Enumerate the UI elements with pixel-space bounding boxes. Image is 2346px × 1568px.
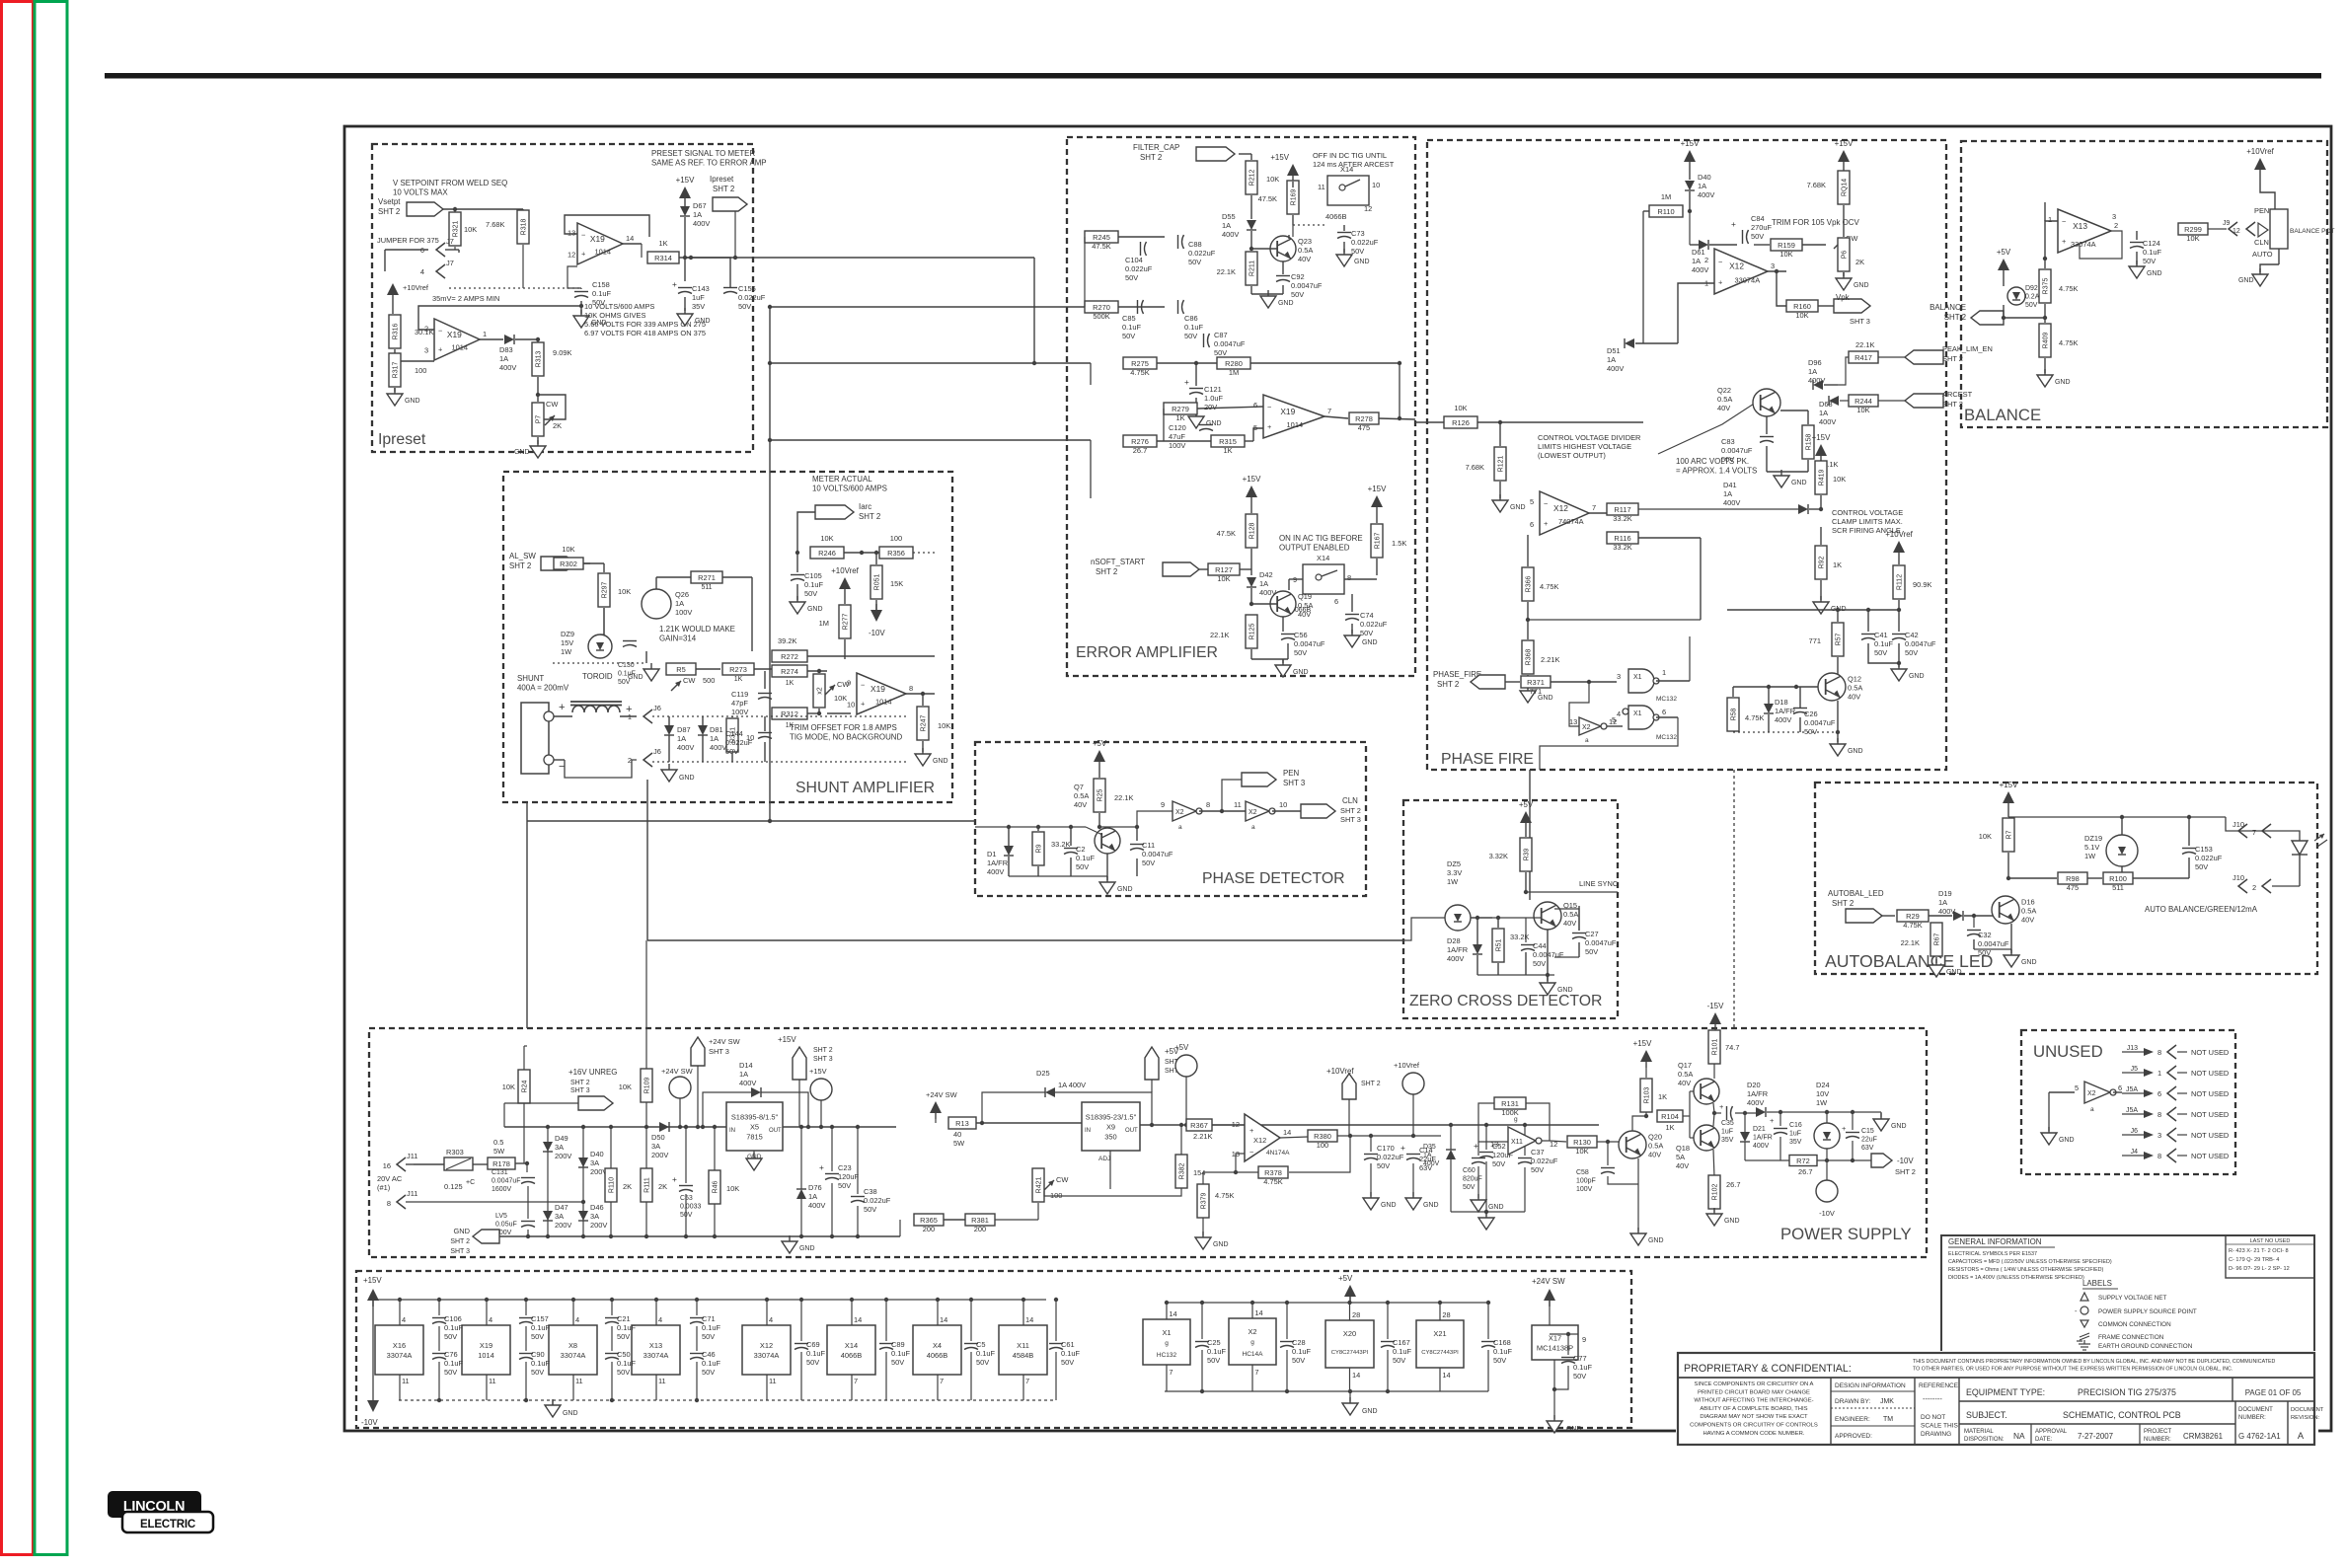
svg-text:400V: 400V [1753, 1143, 1770, 1150]
svg-text:R116: R116 [1614, 534, 1630, 543]
svg-text:+: + [1770, 1116, 1774, 1125]
svg-text:C27: C27 [1585, 930, 1599, 938]
svg-text:SHT 3: SHT 3 [1283, 779, 1306, 787]
svg-text:15K: 15K [890, 579, 903, 588]
svg-text:7: 7 [2252, 828, 2256, 837]
svg-text:C74: C74 [1360, 611, 1374, 620]
svg-text:OFF IN DC TIG UNTIL: OFF IN DC TIG UNTIL [1313, 151, 1387, 160]
svg-text:D1: D1 [987, 850, 997, 859]
svg-text:1A: 1A [1819, 409, 1828, 417]
svg-text:50V: 50V [1188, 258, 1201, 266]
svg-text:1uF: 1uF [1789, 1131, 1801, 1138]
svg-text:a: a [2090, 1106, 2094, 1113]
svg-text:J10: J10 [2232, 873, 2244, 882]
svg-text:X19: X19 [447, 330, 462, 339]
svg-text:500: 500 [703, 676, 715, 685]
svg-text:10: 10 [1279, 800, 1287, 809]
svg-text:14: 14 [1352, 1371, 1360, 1380]
svg-text:771: 771 [1809, 636, 1821, 645]
svg-text:R302: R302 [560, 560, 577, 568]
svg-text:C71: C71 [702, 1314, 716, 1323]
svg-text:X21: X21 [1433, 1329, 1446, 1338]
svg-text:GAIN=314: GAIN=314 [659, 635, 697, 643]
svg-text:1.0uF: 1.0uF [1204, 394, 1223, 403]
svg-text:NOT USED: NOT USED [2191, 1152, 2230, 1160]
svg-text:10 VOLTS/600 AMPS: 10 VOLTS/600 AMPS [812, 485, 887, 493]
svg-text:2.21K: 2.21K [1193, 1132, 1212, 1141]
svg-text:R245: R245 [1093, 233, 1110, 242]
svg-text:C84: C84 [1751, 214, 1765, 223]
svg-text:3: 3 [2112, 212, 2116, 221]
svg-text:40V: 40V [1074, 800, 1087, 809]
svg-text:ON IN AC TIG BEFORE: ON IN AC TIG BEFORE [1279, 534, 1363, 543]
svg-text:1uF: 1uF [1721, 1129, 1733, 1136]
svg-text:1A 400V: 1A 400V [1058, 1081, 1086, 1089]
svg-text:GND: GND [1381, 1202, 1397, 1209]
svg-text:0.022uF: 0.022uF [1351, 238, 1379, 247]
svg-text:AUTO BALANCE/GREEN/12mA: AUTO BALANCE/GREEN/12mA [2145, 905, 2258, 914]
svg-text:22.1K: 22.1K [1855, 340, 1874, 349]
svg-text:R13: R13 [955, 1119, 969, 1128]
svg-text:C15: C15 [1861, 1128, 1874, 1135]
svg-text:50V: 50V [617, 1332, 630, 1341]
svg-text:GND: GND [1648, 1237, 1664, 1244]
svg-text:0.1uF: 0.1uF [976, 1349, 995, 1358]
svg-text:OUT: OUT [1125, 1128, 1138, 1134]
svg-text:14: 14 [1169, 1309, 1176, 1318]
svg-text:D83: D83 [499, 345, 513, 354]
svg-text:3: 3 [2157, 1131, 2161, 1140]
svg-text:50V: 50V [1804, 727, 1817, 736]
svg-text:C92: C92 [1291, 272, 1305, 281]
svg-text:50V: 50V [1294, 648, 1307, 657]
svg-text:C89: C89 [891, 1340, 905, 1349]
svg-text:TO OTHER PARTIES, OR USED FOR: TO OTHER PARTIES, OR USED FOR ANY PURPOS… [1913, 1367, 2232, 1373]
svg-text:X11: X11 [1017, 1341, 1029, 1350]
svg-text:D50: D50 [651, 1133, 665, 1142]
svg-text:0.5A: 0.5A [1717, 395, 1732, 404]
svg-text:C167: C167 [1393, 1338, 1410, 1347]
svg-text:100pF: 100pF [1576, 1178, 1596, 1185]
svg-text:DATE:: DATE: [2035, 1437, 2053, 1443]
svg-text:R178: R178 [492, 1159, 510, 1168]
svg-text:10K: 10K [1266, 175, 1279, 184]
svg-text:22.1K: 22.1K [1901, 938, 1920, 947]
svg-text:Q20: Q20 [1648, 1132, 1662, 1141]
svg-text:26.7: 26.7 [1726, 1180, 1740, 1189]
svg-text:4.75K: 4.75K [1130, 368, 1149, 377]
svg-text:GND: GND [563, 1410, 578, 1417]
svg-text:D40: D40 [590, 1150, 604, 1158]
svg-text:+: + [1184, 377, 1189, 387]
svg-text:SHT 2: SHT 2 [1096, 567, 1117, 576]
svg-text:-10V: -10V [869, 629, 885, 637]
svg-text:FRAME CONNECTION: FRAME CONNECTION [2098, 1334, 2164, 1341]
svg-text:50V: 50V [1184, 332, 1197, 340]
svg-text:1014: 1014 [1287, 420, 1304, 429]
svg-text:SAME AS REF. TO ERROR AMP: SAME AS REF. TO ERROR AMP [651, 159, 767, 168]
svg-text:LV5: LV5 [495, 1213, 507, 1220]
svg-text:C23: C23 [838, 1163, 852, 1172]
svg-text:63V: 63V [1419, 1163, 1432, 1172]
svg-text:200V: 200V [590, 1221, 607, 1230]
svg-text:35V: 35V [1789, 1139, 1802, 1146]
svg-text:50V: 50V [864, 1205, 876, 1214]
svg-text:6: 6 [2157, 1089, 2161, 1098]
svg-text:3A: 3A [555, 1143, 564, 1152]
svg-text:11: 11 [1234, 800, 1242, 809]
svg-text:C87: C87 [1214, 331, 1228, 339]
svg-text:P6: P6 [1842, 251, 1849, 260]
svg-text:7: 7 [1254, 1368, 1258, 1377]
svg-text:+15V: +15V [1270, 153, 1289, 162]
svg-text:+24V SW: +24V SW [661, 1067, 693, 1076]
svg-text:C56: C56 [1294, 631, 1308, 639]
svg-text:40: 40 [953, 1130, 961, 1139]
svg-text:4: 4 [402, 1315, 406, 1324]
svg-text:5: 5 [1612, 715, 1616, 724]
svg-text:+10Vref: +10Vref [831, 566, 859, 575]
svg-text:D24: D24 [1816, 1081, 1830, 1089]
svg-text:400V: 400V [987, 867, 1004, 876]
svg-text:+15V: +15V [1812, 433, 1831, 442]
svg-text:GND: GND [1566, 1426, 1582, 1433]
svg-text:EARTH GROUND CONNECTION: EARTH GROUND CONNECTION [2098, 1343, 2193, 1350]
svg-text:1A: 1A [1698, 182, 1706, 190]
svg-text:33.2K: 33.2K [1613, 543, 1631, 552]
svg-text:C90: C90 [531, 1350, 545, 1359]
svg-text:R318: R318 [521, 219, 528, 236]
svg-text:+: + [1842, 1124, 1846, 1133]
svg-text:C120: C120 [1169, 423, 1186, 432]
svg-text:Q23: Q23 [1298, 237, 1312, 246]
svg-text:10K: 10K [1795, 311, 1808, 320]
svg-text:0.1uF: 0.1uF [1573, 1363, 1592, 1372]
svg-text:GND: GND [628, 674, 643, 681]
svg-text:+: + [672, 279, 677, 289]
svg-text:LABELS: LABELS [2082, 1279, 2112, 1288]
svg-text:+10Vref: +10Vref [1326, 1067, 1354, 1076]
svg-text:28: 28 [1352, 1310, 1360, 1319]
svg-text:-15V: -15V [1707, 1002, 1724, 1010]
svg-text:0.1uF: 0.1uF [1292, 1347, 1311, 1356]
svg-text:2: 2 [2114, 221, 2118, 230]
svg-text:0.022uF: 0.022uF [1125, 264, 1153, 273]
svg-text:GND: GND [1854, 282, 1869, 289]
svg-text:50V: 50V [976, 1358, 989, 1367]
svg-text:10K: 10K [619, 1083, 632, 1091]
svg-text:6.97 VOLTS FOR 418 AMPS ON 375: 6.97 VOLTS FOR 418 AMPS ON 375 [584, 329, 706, 337]
svg-text:50V: 50V [617, 1368, 630, 1377]
svg-text:50V: 50V [725, 747, 738, 756]
svg-text:1W: 1W [1447, 877, 1458, 886]
svg-text:GND: GND [1278, 300, 1294, 307]
svg-text:4: 4 [420, 267, 424, 276]
svg-text:+5V: +5V [1338, 1274, 1353, 1283]
svg-text:+: + [861, 700, 865, 709]
svg-text:5A: 5A [1676, 1153, 1685, 1161]
svg-text:NOT USED: NOT USED [2191, 1069, 2230, 1078]
svg-text:1014: 1014 [451, 343, 468, 352]
svg-text:J5A: J5A [2126, 1107, 2138, 1114]
svg-text:14: 14 [940, 1315, 947, 1324]
svg-text:SHT 2: SHT 2 [1340, 806, 1361, 815]
svg-text:1W: 1W [561, 647, 571, 656]
svg-text:1A/FR: 1A/FR [987, 859, 1009, 867]
svg-text:33.2K: 33.2K [1051, 840, 1070, 849]
svg-text:X20: X20 [1343, 1329, 1356, 1338]
svg-text:0.5A: 0.5A [1563, 910, 1578, 919]
svg-text:1A: 1A [675, 599, 684, 608]
svg-text:CW: CW [546, 400, 558, 409]
svg-text:400V: 400V [1698, 190, 1714, 199]
svg-text:PHASE DETECTOR: PHASE DETECTOR [1202, 870, 1345, 887]
svg-text:10K: 10K [1217, 574, 1230, 583]
svg-text:SHT 2: SHT 2 [859, 512, 880, 521]
svg-text:8: 8 [2157, 1110, 2161, 1119]
svg-text:+15V: +15V [2000, 781, 2018, 789]
svg-text:+15V: +15V [778, 1035, 796, 1044]
svg-text:X1: X1 [1162, 1328, 1171, 1337]
svg-text:R312: R312 [781, 709, 798, 718]
svg-text:+15V: +15V [1835, 139, 1854, 148]
svg-text:DZ19: DZ19 [2084, 834, 2102, 843]
svg-text:CW: CW [683, 676, 695, 685]
svg-text:90.9K: 90.9K [1913, 580, 1931, 589]
svg-text:D42: D42 [1259, 570, 1273, 579]
svg-text:−: − [1267, 403, 1271, 411]
svg-text:0.5A: 0.5A [1298, 246, 1313, 255]
svg-text:7: 7 [854, 1377, 858, 1385]
svg-text:50V: 50V [1142, 859, 1155, 867]
svg-text:400V: 400V [1808, 376, 1825, 385]
svg-text:J4: J4 [2131, 1149, 2138, 1156]
svg-text:NOT USED: NOT USED [2191, 1048, 2230, 1057]
svg-text:GND: GND [1488, 1204, 1504, 1211]
svg-text:10K: 10K [726, 1184, 739, 1193]
svg-text:X17: X17 [1549, 1334, 1561, 1343]
svg-text:SHT 2: SHT 2 [1140, 153, 1162, 162]
svg-text:47.5K: 47.5K [1217, 529, 1236, 538]
svg-text:C170: C170 [1377, 1144, 1395, 1153]
svg-text:1K: 1K [786, 680, 795, 687]
svg-text:Ipreset: Ipreset [378, 431, 426, 448]
svg-text:g: g [1250, 1339, 1254, 1346]
svg-text:R100: R100 [2109, 874, 2127, 883]
svg-text:3A: 3A [555, 1212, 564, 1221]
svg-text:GND: GND [1791, 480, 1807, 486]
svg-text:47pF: 47pF [731, 699, 748, 708]
svg-text:MATERIAL: MATERIAL [1964, 1429, 1994, 1435]
svg-text:R315: R315 [1219, 437, 1237, 446]
svg-text:NUMBER:: NUMBER: [2238, 1415, 2266, 1421]
svg-text:J13: J13 [2127, 1045, 2138, 1052]
svg-text:0.5: 0.5 [493, 1138, 503, 1147]
svg-text:3: 3 [1771, 261, 1775, 270]
svg-text:4066B: 4066B [841, 1351, 863, 1360]
svg-text:0.1uF: 0.1uF [531, 1359, 550, 1368]
svg-text:400V: 400V [1819, 417, 1836, 426]
svg-text:DISPOSITION:: DISPOSITION: [1964, 1437, 2005, 1443]
svg-text:X19: X19 [1280, 407, 1295, 416]
svg-text:GND: GND [405, 398, 420, 405]
svg-text:50V: 50V [531, 1368, 544, 1377]
svg-text:S18395-8/1.5": S18395-8/1.5" [731, 1113, 779, 1122]
svg-text:X14: X14 [1317, 554, 1329, 562]
svg-text:Iarc: Iarc [859, 502, 871, 511]
svg-text:Q17: Q17 [1678, 1061, 1692, 1070]
svg-text:R110: R110 [609, 1177, 616, 1193]
svg-text:1K: 1K [1658, 1092, 1667, 1101]
svg-text:0.1uF: 0.1uF [592, 289, 611, 298]
svg-text:22.1K: 22.1K [1114, 793, 1133, 802]
svg-text:R7: R7 [2006, 830, 2013, 839]
svg-text:G 4762-1A1: G 4762-1A1 [2238, 1432, 2281, 1441]
svg-text:400V: 400V [1775, 715, 1791, 724]
svg-text:10K: 10K [562, 545, 574, 554]
svg-text:7-27-2007: 7-27-2007 [2078, 1432, 2113, 1441]
svg-text:0.0047uF: 0.0047uF [1585, 938, 1617, 947]
svg-text:100: 100 [415, 366, 426, 375]
svg-text:1A/FR: 1A/FR [1753, 1135, 1773, 1142]
svg-text:R247: R247 [921, 715, 928, 732]
svg-text:DZ5: DZ5 [1447, 859, 1461, 868]
svg-text:+5V: +5V [1519, 800, 1534, 809]
svg-text:GND: GND [1293, 669, 1309, 676]
svg-text:0.5A: 0.5A [1298, 601, 1313, 610]
svg-text:RQ14: RQ14 [1842, 179, 1849, 196]
svg-text:ARCEST: ARCEST [1942, 390, 1973, 399]
svg-text:0.1uF: 0.1uF [1061, 1349, 1080, 1358]
svg-text:8: 8 [2157, 1152, 2161, 1160]
svg-text:X8: X8 [568, 1341, 577, 1350]
svg-text:SHUNT: SHUNT [517, 674, 544, 683]
svg-text:R109: R109 [644, 1078, 651, 1094]
svg-text:R92: R92 [1819, 556, 1826, 568]
svg-text:5W: 5W [953, 1139, 964, 1148]
svg-text:--------: -------- [1923, 1394, 1942, 1403]
svg-text:14: 14 [1254, 1308, 1262, 1317]
svg-text:CLN: CLN [2254, 238, 2269, 247]
svg-text:CONTROL VOLTAGE DIVIDER: CONTROL VOLTAGE DIVIDER [1538, 433, 1641, 442]
svg-text:(LOWEST OUTPUT): (LOWEST OUTPUT) [1538, 451, 1606, 460]
svg-text:+15V: +15V [809, 1067, 827, 1076]
svg-text:R366: R366 [1526, 576, 1533, 593]
svg-text:20V: 20V [1204, 403, 1217, 411]
svg-text:7: 7 [940, 1377, 944, 1385]
svg-text:GND: GND [2147, 270, 2162, 277]
svg-text:Vpk: Vpk [1836, 293, 1850, 302]
svg-text:8: 8 [2157, 1048, 2161, 1057]
svg-text:D67: D67 [693, 201, 707, 210]
svg-text:GND: GND [1538, 695, 1553, 702]
svg-text:J11: J11 [407, 1189, 417, 1198]
svg-text:400V: 400V [1692, 265, 1708, 274]
svg-text:X16: X16 [393, 1341, 406, 1350]
svg-text:200V: 200V [651, 1151, 668, 1159]
svg-text:DIAGRAM MAY NOT SHOW THE EXACT: DIAGRAM MAY NOT SHOW THE EXACT [1700, 1414, 1808, 1420]
svg-text:50V: 50V [1214, 348, 1227, 357]
svg-text:0.0047uF: 0.0047uF [1978, 939, 2009, 948]
svg-text:50V: 50V [838, 1181, 851, 1190]
svg-text:1K: 1K [734, 676, 743, 683]
svg-text:22uF: 22uF [1861, 1137, 1877, 1144]
svg-text:DZ9: DZ9 [561, 630, 574, 638]
svg-text:0.0047uF: 0.0047uF [492, 1178, 520, 1185]
svg-text:ELECTRICAL SYMBOLS PER E1537: ELECTRICAL SYMBOLS PER E1537 [1948, 1251, 2037, 1257]
svg-text:50V: 50V [1207, 1356, 1220, 1365]
svg-text:14: 14 [626, 234, 634, 243]
svg-text:7815: 7815 [746, 1133, 763, 1142]
svg-text:J6: J6 [653, 747, 661, 756]
svg-text:OUTPUT ENABLED: OUTPUT ENABLED [1279, 544, 1350, 553]
svg-text:C61: C61 [1061, 1340, 1075, 1349]
svg-text:10K: 10K [1575, 1147, 1588, 1156]
svg-text:−: − [581, 231, 585, 240]
svg-text:511: 511 [2112, 883, 2124, 892]
svg-text:1A: 1A [710, 734, 719, 743]
svg-text:HC14A: HC14A [1243, 1351, 1264, 1358]
svg-text:0.5A: 0.5A [1648, 1141, 1663, 1150]
svg-text:+: + [581, 250, 585, 259]
svg-text:−: − [1718, 258, 1722, 266]
svg-text:3A: 3A [590, 1158, 599, 1167]
svg-text:−: − [861, 681, 865, 690]
svg-text:C38: C38 [864, 1187, 877, 1196]
svg-text:Q19: Q19 [1298, 592, 1312, 601]
svg-text:33074A: 33074A [561, 1351, 586, 1360]
svg-text:+10Vref: +10Vref [2246, 147, 2274, 156]
svg-text:x2: x2 [817, 687, 824, 694]
svg-text:6: 6 [1253, 401, 1257, 410]
svg-text:COMMON CONNECTION: COMMON CONNECTION [2098, 1321, 2171, 1328]
svg-text:DOCUMENT: DOCUMENT [2291, 1407, 2324, 1413]
svg-text:R278: R278 [1355, 414, 1373, 423]
svg-text:0.1uF: 0.1uF [617, 1359, 636, 1368]
svg-text:D14: D14 [739, 1061, 753, 1070]
svg-text:0.2A: 0.2A [2025, 294, 2040, 301]
svg-text:POWER SUPPLY: POWER SUPPLY [1780, 1225, 1912, 1243]
svg-text:X11: X11 [1511, 1139, 1523, 1146]
svg-text:R111: R111 [644, 1177, 651, 1193]
svg-text:D21: D21 [1753, 1126, 1766, 1133]
svg-text:g: g [1165, 1340, 1169, 1347]
svg-text:GND: GND [1510, 504, 1526, 511]
svg-text:TIG MODE, NO BACKGROUND: TIG MODE, NO BACKGROUND [790, 733, 902, 742]
svg-text:9: 9 [1161, 800, 1165, 809]
svg-text:C35: C35 [1721, 1120, 1734, 1127]
svg-text:−: − [1249, 1148, 1253, 1157]
svg-text:D49: D49 [555, 1134, 568, 1143]
svg-text:200V: 200V [555, 1152, 571, 1160]
svg-text:GND: GND [799, 1245, 815, 1252]
svg-text:4: 4 [1617, 709, 1621, 718]
svg-text:R211: R211 [1249, 261, 1256, 276]
svg-text:CY8C27443PI: CY8C27443PI [1331, 1350, 1369, 1356]
svg-text:R419: R419 [1819, 470, 1826, 486]
svg-text:X12: X12 [1729, 261, 1744, 271]
svg-text:1K: 1K [1665, 1123, 1674, 1132]
svg-text:X2: X2 [2087, 1090, 2096, 1097]
svg-text:33074A: 33074A [643, 1351, 669, 1360]
svg-text:11: 11 [489, 1377, 496, 1385]
svg-text:GND: GND [933, 758, 948, 765]
svg-text:PRESET SIGNAL TO METER: PRESET SIGNAL TO METER [651, 149, 755, 158]
svg-text:MC132: MC132 [1656, 734, 1677, 741]
svg-text:0.022uF: 0.022uF [725, 738, 753, 747]
svg-text:SHT 2: SHT 2 [1832, 899, 1854, 908]
svg-text:+5V: +5V [1174, 1043, 1189, 1052]
